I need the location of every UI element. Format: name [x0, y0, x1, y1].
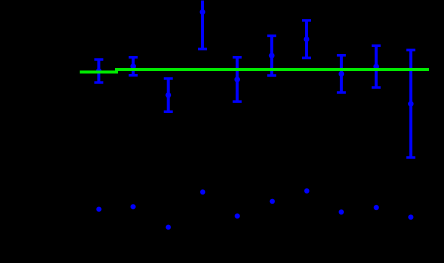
data point 4 (pull dot) — [200, 189, 205, 194]
data point 6 (pull dot) — [270, 199, 275, 204]
data point 5 (pull dot) — [235, 213, 240, 218]
error bar 2 — [129, 57, 138, 75]
data point 7 (pull dot) — [304, 188, 309, 193]
error bar 4 (top clipped) — [198, 1, 207, 50]
data point 10 (pull dot) — [408, 215, 413, 220]
error bar 8 — [337, 55, 346, 92]
data point 8 (pull dot) — [339, 209, 344, 214]
error bar 5 — [233, 57, 242, 101]
data point 9 (pull dot) — [374, 205, 379, 210]
data point 2 (pull dot) — [131, 204, 136, 209]
data point 3 (pull dot) — [166, 225, 171, 230]
fit line (green step function) — [80, 70, 429, 73]
error bar 1 — [94, 60, 103, 83]
error bar 3 — [164, 79, 173, 112]
error bar 9 — [372, 46, 381, 88]
error bar 10 — [406, 50, 415, 158]
error bar 6 — [267, 36, 276, 76]
data point 1 (pull dot) — [96, 207, 101, 212]
error bar 7 — [302, 20, 311, 58]
